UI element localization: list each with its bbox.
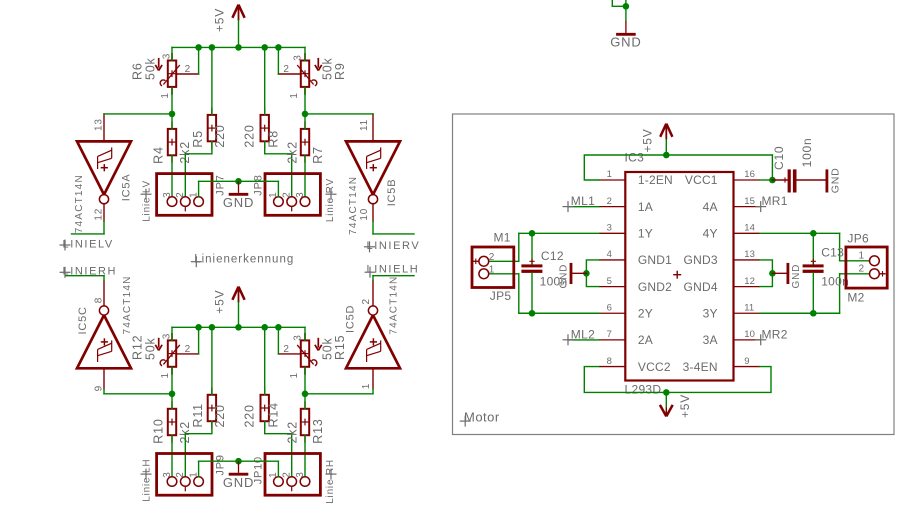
wire bbox=[584, 155, 666, 180]
wire bbox=[278, 73, 300, 75]
svg-text:74ACT14N: 74ACT14N bbox=[348, 176, 359, 235]
wire bbox=[198, 181, 200, 197]
svg-text:+5V: +5V bbox=[213, 290, 227, 314]
svg-text:2: 2 bbox=[607, 196, 612, 207]
resistor R10 bbox=[152, 401, 192, 443]
svg-text:R8: R8 bbox=[267, 130, 281, 148]
label Motor bbox=[460, 410, 500, 427]
wire bbox=[103, 221, 105, 234]
wire bbox=[372, 276, 374, 281]
svg-text:R12: R12 bbox=[131, 335, 145, 360]
svg-text:Motor: Motor bbox=[464, 410, 500, 425]
wire bbox=[584, 367, 666, 393]
svg-text:4: 4 bbox=[607, 249, 612, 260]
potentiometer R6 bbox=[131, 53, 191, 99]
wire bbox=[103, 276, 105, 281]
junction bbox=[261, 324, 268, 331]
svg-text:C10: C10 bbox=[772, 146, 786, 170]
svg-text:1: 1 bbox=[188, 471, 199, 477]
svg-text:M1: M1 bbox=[494, 230, 511, 244]
svg-text:1: 1 bbox=[268, 471, 279, 477]
ground GND (between JP9 JP10) bbox=[223, 461, 254, 490]
supply +5V (motor bottom) bbox=[660, 392, 692, 418]
svg-text:3: 3 bbox=[162, 192, 173, 198]
wire bbox=[199, 180, 279, 182]
label LINIERV bbox=[364, 240, 420, 252]
svg-text:1: 1 bbox=[489, 265, 495, 276]
svg-text:GND: GND bbox=[223, 475, 254, 490]
wire bbox=[104, 113, 172, 115]
svg-text:12: 12 bbox=[93, 208, 104, 221]
jumper JP8 bbox=[252, 174, 320, 216]
svg-text:3: 3 bbox=[161, 53, 172, 59]
label Linie LH bbox=[141, 459, 153, 502]
potentiometer R15 bbox=[283, 333, 347, 379]
wire bbox=[198, 327, 200, 354]
junction bbox=[261, 44, 268, 51]
svg-text:1: 1 bbox=[607, 169, 612, 180]
op-amp IC5A bbox=[74, 114, 133, 233]
wire bbox=[176, 73, 198, 75]
svg-text:R10: R10 bbox=[152, 418, 166, 443]
wire bbox=[304, 435, 306, 477]
junction bbox=[235, 44, 242, 51]
junction bbox=[195, 44, 202, 51]
svg-text:3A: 3A bbox=[703, 333, 718, 347]
resistor R5 bbox=[191, 108, 227, 149]
jumper JP10 bbox=[252, 454, 320, 496]
wire bbox=[103, 389, 105, 394]
svg-text:GND1: GND1 bbox=[638, 253, 672, 267]
svg-text:3Y: 3Y bbox=[703, 306, 718, 320]
svg-text:10: 10 bbox=[359, 208, 370, 221]
wire bbox=[171, 87, 173, 114]
wire bbox=[304, 394, 306, 409]
wire bbox=[373, 233, 414, 235]
svg-text:1-2EN: 1-2EN bbox=[638, 173, 673, 187]
ground GND (pins 4-5) bbox=[559, 263, 587, 289]
svg-text:GND: GND bbox=[791, 264, 802, 289]
svg-text:2A: 2A bbox=[638, 333, 653, 347]
wire bbox=[373, 275, 414, 277]
svg-text:ML1: ML1 bbox=[571, 194, 595, 208]
svg-text:4A: 4A bbox=[703, 200, 718, 214]
junction bbox=[769, 177, 776, 184]
svg-text:IC5D: IC5D bbox=[345, 305, 357, 333]
label Linie LV bbox=[141, 180, 153, 222]
wire bbox=[305, 393, 373, 395]
svg-text:JP9: JP9 bbox=[214, 454, 226, 475]
svg-text:LINIERH: LINIERH bbox=[63, 266, 118, 278]
wire bbox=[372, 389, 374, 394]
svg-text:R9: R9 bbox=[333, 62, 347, 80]
resistor R13 bbox=[286, 401, 325, 443]
svg-text:+5V: +5V bbox=[641, 128, 655, 152]
wire bbox=[839, 233, 841, 260]
svg-text:2: 2 bbox=[282, 192, 293, 198]
svg-text:9: 9 bbox=[93, 385, 104, 391]
wire +5V bus (upper) bbox=[172, 46, 305, 48]
svg-text:3: 3 bbox=[293, 54, 304, 60]
svg-text:2: 2 bbox=[859, 264, 865, 275]
svg-text:IC5C: IC5C bbox=[77, 306, 89, 334]
svg-text:15: 15 bbox=[744, 196, 755, 207]
junction bbox=[209, 44, 216, 51]
svg-text:220: 220 bbox=[243, 404, 257, 427]
wire bbox=[304, 367, 306, 394]
junction bbox=[275, 324, 282, 331]
wire bbox=[519, 232, 599, 234]
svg-text:2: 2 bbox=[175, 192, 186, 198]
svg-text:3-4EN: 3-4EN bbox=[683, 360, 718, 374]
potentiometer R12 bbox=[131, 333, 191, 379]
svg-text:M2: M2 bbox=[847, 291, 864, 305]
junction bbox=[529, 230, 536, 237]
wire bbox=[171, 327, 173, 340]
wire bbox=[278, 353, 300, 355]
label MR2 bbox=[755, 327, 788, 345]
junction node B bbox=[302, 111, 309, 118]
wire bbox=[211, 327, 213, 395]
svg-text:Linie LV: Linie LV bbox=[142, 180, 153, 222]
supply +5V (motor top) bbox=[641, 124, 673, 155]
svg-text:IC5B: IC5B bbox=[386, 179, 398, 207]
svg-text:R15: R15 bbox=[333, 335, 347, 360]
svg-text:Linie LH: Linie LH bbox=[142, 459, 153, 502]
resistor R14 bbox=[243, 387, 281, 428]
svg-text:14: 14 bbox=[744, 223, 755, 234]
wire bbox=[264, 327, 266, 395]
wire bbox=[666, 154, 772, 156]
op-amp IC5C bbox=[77, 275, 133, 391]
wire bbox=[171, 155, 173, 197]
wire bbox=[489, 273, 519, 275]
label Linienerkennung bbox=[191, 253, 294, 267]
junction bbox=[235, 324, 242, 331]
svg-text:74ACT14N: 74ACT14N bbox=[74, 174, 85, 233]
svg-text:GND: GND bbox=[610, 34, 641, 49]
label LINIELV bbox=[60, 238, 114, 250]
wire bbox=[489, 260, 519, 262]
wire bbox=[265, 421, 292, 477]
svg-text:100n: 100n bbox=[540, 275, 568, 289]
wire bbox=[625, 0, 627, 21]
svg-text:R6: R6 bbox=[131, 62, 145, 80]
wire bbox=[839, 274, 841, 313]
svg-text:R13: R13 bbox=[311, 418, 325, 443]
wire bbox=[171, 367, 173, 394]
wire bbox=[171, 47, 173, 60]
junction bbox=[769, 270, 776, 277]
wire bbox=[238, 20, 240, 47]
svg-text:R14: R14 bbox=[267, 402, 281, 427]
svg-text:ML2: ML2 bbox=[571, 327, 595, 341]
wire bbox=[304, 114, 306, 129]
wire bbox=[304, 87, 306, 114]
svg-text:2: 2 bbox=[175, 471, 186, 477]
svg-text:220: 220 bbox=[243, 124, 257, 147]
svg-text:1: 1 bbox=[160, 92, 171, 98]
junction bbox=[275, 44, 282, 51]
svg-text:GND: GND bbox=[223, 195, 254, 210]
svg-text:+5V: +5V bbox=[213, 8, 227, 32]
junction bbox=[810, 230, 817, 237]
label ML2 bbox=[563, 327, 596, 345]
wire bbox=[198, 461, 200, 477]
svg-text:3: 3 bbox=[162, 471, 173, 477]
jumper JP9 bbox=[157, 454, 227, 496]
svg-text:GND: GND bbox=[830, 167, 842, 193]
wire +5V bus (lower) bbox=[172, 326, 305, 328]
wire bbox=[238, 302, 240, 327]
wire bbox=[277, 327, 279, 354]
wire bbox=[198, 47, 200, 74]
wire bbox=[519, 312, 599, 314]
label ML1 bbox=[563, 194, 596, 212]
svg-text:11: 11 bbox=[744, 302, 754, 313]
svg-text:1: 1 bbox=[289, 372, 300, 378]
svg-text:5: 5 bbox=[607, 276, 612, 287]
capacitor C13 bbox=[803, 233, 850, 313]
svg-text:13: 13 bbox=[93, 118, 104, 131]
label Linie RV bbox=[325, 178, 337, 222]
wire bbox=[171, 435, 173, 477]
svg-text:100n: 100n bbox=[800, 137, 814, 167]
junction bbox=[663, 152, 670, 159]
ground GND (pins 13-12) bbox=[772, 263, 802, 289]
wire bbox=[305, 113, 373, 115]
junction bbox=[235, 178, 242, 185]
svg-text:2k2: 2k2 bbox=[286, 421, 300, 444]
svg-text:220: 220 bbox=[213, 404, 227, 427]
svg-text:3: 3 bbox=[295, 192, 306, 198]
wire bbox=[771, 155, 773, 180]
wire bbox=[760, 179, 773, 181]
svg-text:2: 2 bbox=[282, 471, 293, 477]
wire bbox=[171, 394, 173, 409]
svg-text:L293D: L293D bbox=[625, 383, 662, 397]
svg-text:50k: 50k bbox=[321, 57, 335, 80]
wire bbox=[199, 460, 279, 462]
svg-text:74ACT14N: 74ACT14N bbox=[122, 275, 133, 334]
svg-text:1: 1 bbox=[160, 372, 171, 378]
junction bbox=[810, 310, 817, 317]
wire bbox=[568, 206, 599, 208]
svg-text:1: 1 bbox=[268, 192, 279, 198]
wire bbox=[372, 221, 374, 234]
svg-text:GND3: GND3 bbox=[684, 253, 718, 267]
wire bbox=[264, 47, 266, 115]
svg-text:LINIELH: LINIELH bbox=[367, 264, 420, 276]
potentiometer R9 bbox=[283, 53, 347, 99]
wire bbox=[265, 141, 292, 197]
svg-text:3: 3 bbox=[293, 334, 304, 340]
junction bbox=[195, 324, 202, 331]
svg-text:50k: 50k bbox=[144, 337, 158, 360]
svg-text:2: 2 bbox=[489, 252, 495, 263]
svg-text:2k2: 2k2 bbox=[286, 141, 300, 164]
wire bbox=[66, 275, 104, 277]
wire bbox=[277, 461, 279, 477]
svg-text:12: 12 bbox=[744, 276, 755, 287]
wire bbox=[72, 233, 105, 235]
junction bbox=[235, 458, 242, 465]
svg-text:C12: C12 bbox=[541, 249, 564, 263]
ground GND (between JP7 JP8) bbox=[223, 181, 254, 210]
svg-text:VCC1: VCC1 bbox=[685, 173, 718, 187]
svg-text:10: 10 bbox=[744, 329, 755, 340]
junction node D bbox=[302, 391, 309, 398]
svg-text:8: 8 bbox=[93, 297, 104, 303]
resistor R7 bbox=[286, 122, 325, 164]
svg-text:IC5A: IC5A bbox=[121, 174, 133, 202]
junction bbox=[529, 310, 536, 317]
jumper JP6 (M2) bbox=[846, 232, 887, 305]
svg-text:VCC2: VCC2 bbox=[638, 360, 671, 374]
wire bbox=[176, 353, 198, 355]
svg-text:50k: 50k bbox=[321, 337, 335, 360]
wire bbox=[171, 114, 173, 129]
capacitor C10 bbox=[772, 137, 825, 192]
junction bbox=[583, 270, 590, 277]
svg-text:8: 8 bbox=[607, 356, 612, 367]
wire bbox=[840, 260, 870, 262]
wire bbox=[304, 47, 306, 60]
resistor R8 bbox=[243, 108, 281, 149]
svg-text:1: 1 bbox=[859, 251, 865, 262]
svg-text:R5: R5 bbox=[191, 130, 205, 148]
label L293D bbox=[625, 383, 662, 397]
svg-text:1: 1 bbox=[361, 383, 372, 389]
wire bbox=[304, 327, 306, 340]
wire bbox=[760, 260, 773, 287]
svg-text:JP5: JP5 bbox=[490, 289, 512, 303]
resistor R11 bbox=[191, 387, 227, 428]
svg-text:16: 16 bbox=[744, 169, 755, 180]
label LINIELH bbox=[365, 264, 420, 278]
svg-text:Linie RV: Linie RV bbox=[325, 178, 336, 222]
wire bbox=[760, 312, 840, 314]
wire bbox=[185, 421, 212, 477]
label Linie RH bbox=[325, 459, 337, 504]
svg-text:GND4: GND4 bbox=[684, 280, 718, 294]
svg-text:JP7: JP7 bbox=[214, 174, 226, 195]
pin numbers IC3 bbox=[607, 169, 755, 367]
frame Motor box bbox=[453, 114, 895, 435]
svg-text:1Y: 1Y bbox=[638, 227, 653, 241]
svg-text:1: 1 bbox=[188, 192, 199, 198]
ground GND (right of C10) bbox=[827, 167, 842, 193]
wire bbox=[104, 393, 172, 395]
op-amp IC5B bbox=[346, 114, 400, 235]
capacitor C12 bbox=[521, 233, 567, 313]
svg-text:13: 13 bbox=[744, 249, 755, 260]
svg-text:R7: R7 bbox=[311, 146, 325, 164]
label MR1 bbox=[755, 194, 788, 212]
svg-text:6: 6 bbox=[607, 302, 612, 313]
wire bbox=[840, 273, 870, 275]
wire bbox=[277, 47, 279, 74]
wire bbox=[568, 339, 599, 341]
jumper JP5 (M1) bbox=[472, 230, 514, 303]
svg-text:50k: 50k bbox=[144, 57, 158, 80]
op-amp IC5D bbox=[345, 276, 400, 390]
svg-text:220: 220 bbox=[213, 124, 227, 147]
junction node A bbox=[169, 111, 176, 118]
svg-text:2: 2 bbox=[361, 298, 372, 304]
wire bbox=[304, 155, 306, 197]
svg-text:4Y: 4Y bbox=[703, 227, 718, 241]
svg-text:9: 9 bbox=[744, 356, 749, 367]
svg-text:2Y: 2Y bbox=[638, 306, 653, 320]
svg-text:7: 7 bbox=[607, 329, 612, 340]
svg-text:11: 11 bbox=[359, 119, 370, 131]
svg-text:74ACT14N: 74ACT14N bbox=[389, 276, 400, 335]
pin names IC3 bbox=[638, 173, 718, 374]
wire bbox=[185, 141, 212, 197]
svg-text:JP6: JP6 bbox=[847, 232, 869, 246]
junction node C bbox=[169, 391, 176, 398]
svg-text:3: 3 bbox=[161, 333, 172, 339]
svg-text:1: 1 bbox=[289, 92, 300, 98]
label IC3 bbox=[625, 151, 645, 165]
resistor R4 bbox=[152, 122, 192, 164]
svg-text:R4: R4 bbox=[152, 146, 166, 164]
supply +5V (lower) bbox=[213, 287, 245, 314]
jumper JP7 bbox=[157, 174, 227, 216]
wire bbox=[211, 47, 213, 115]
IC U1 L293D (IC3) bbox=[599, 172, 760, 381]
svg-text:JP8: JP8 bbox=[252, 174, 264, 195]
junction bbox=[209, 324, 216, 331]
svg-text:+5V: +5V bbox=[678, 394, 692, 418]
supply +5V (upper) bbox=[213, 5, 245, 32]
svg-text:3: 3 bbox=[607, 223, 612, 234]
wire bbox=[518, 274, 520, 313]
label LINIERH bbox=[60, 266, 118, 278]
svg-text:C13: C13 bbox=[821, 245, 844, 259]
svg-text:3: 3 bbox=[295, 471, 306, 477]
junction bbox=[623, 3, 630, 10]
svg-text:Linie RH: Linie RH bbox=[325, 459, 336, 504]
svg-text:1A: 1A bbox=[638, 200, 653, 214]
wire bbox=[760, 232, 840, 234]
wire bbox=[612, 0, 626, 6]
wire bbox=[666, 367, 771, 393]
wire bbox=[518, 233, 520, 261]
ground GND (top) bbox=[610, 21, 641, 49]
junction bbox=[663, 389, 670, 396]
svg-text:Linienerkennung: Linienerkennung bbox=[194, 253, 294, 265]
wire bbox=[586, 260, 599, 287]
svg-text:R11: R11 bbox=[191, 403, 205, 427]
wire bbox=[277, 181, 279, 197]
svg-text:GND2: GND2 bbox=[638, 280, 672, 294]
